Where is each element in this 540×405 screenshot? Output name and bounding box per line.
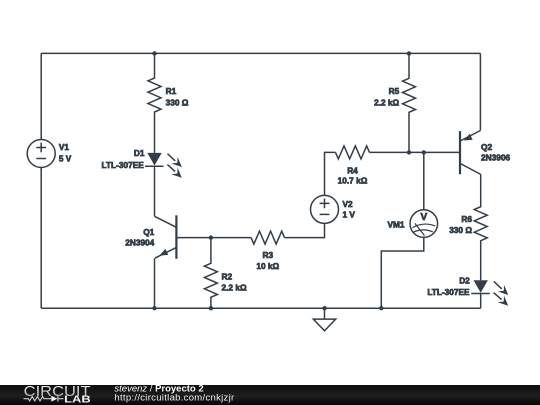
transistor Q1 — [155, 215, 177, 258]
node junction R2 top — [209, 235, 213, 239]
wire bottom rail — [41, 307, 481, 309]
resistor R5 — [403, 53, 416, 152]
svg-text:5 V: 5 V — [59, 154, 72, 164]
resistor R3 — [251, 231, 284, 244]
svg-text:R2: R2 — [222, 272, 233, 282]
label R5 value — [374, 86, 399, 107]
footer bar — [0, 385, 540, 405]
label Q2 value — [481, 142, 510, 163]
wire V1 top lead — [40, 53, 42, 139]
svg-text:R4: R4 — [347, 165, 358, 175]
wire VM1 top lead — [423, 152, 425, 209]
node junction R5 bottom — [407, 150, 411, 154]
node junction R2 bottom — [209, 306, 213, 310]
svg-text:LTL-307EE: LTL-307EE — [102, 160, 145, 170]
label D1 value — [102, 148, 145, 170]
node junction VM1 top — [422, 150, 426, 154]
label R3 value — [256, 250, 279, 271]
wire VM1 bottom lead to bottom rail — [381, 237, 424, 308]
resistor R1 — [148, 53, 161, 152]
node junction R1 top — [152, 51, 156, 55]
node junction Q1 emitter bottom — [152, 306, 156, 310]
wire Q1 base to R3 — [176, 237, 251, 239]
svg-text:10 kΩ: 10 kΩ — [256, 261, 279, 271]
svg-text:330 Ω: 330 Ω — [166, 97, 189, 107]
wire D1 to Q1 collector — [154, 166, 156, 216]
svg-text:2.2 kΩ: 2.2 kΩ — [222, 283, 247, 293]
svg-text:10.7 kΩ: 10.7 kΩ — [338, 176, 368, 186]
svg-text:2.2 kΩ: 2.2 kΩ — [374, 97, 399, 107]
svg-text:V1: V1 — [59, 142, 70, 152]
svg-text:D1: D1 — [134, 148, 145, 158]
voltage source V2 — [311, 195, 339, 223]
wire R3 to V2 — [285, 223, 325, 237]
label D2 value — [427, 276, 470, 298]
LED D1 — [145, 153, 182, 178]
voltmeter VM1 — [410, 210, 438, 238]
node junction VM1 return — [379, 306, 383, 310]
svg-text:D2: D2 — [459, 276, 470, 286]
ground — [313, 308, 335, 331]
svg-text:Q2: Q2 — [481, 142, 492, 152]
svg-text:R6: R6 — [461, 214, 472, 224]
wire V2 to R4 — [325, 152, 336, 195]
wire R4 to Q2 base — [370, 151, 461, 153]
resistor R2 — [204, 238, 217, 309]
label R1 value — [166, 86, 189, 107]
label V1 value — [59, 142, 72, 164]
node junction ground — [322, 306, 326, 310]
svg-text:V2: V2 — [343, 199, 354, 209]
svg-text:LTL-307EE: LTL-307EE — [427, 287, 470, 297]
label R4 value — [338, 165, 368, 185]
resistor R6 — [474, 174, 487, 280]
voltage source V1 — [27, 140, 55, 168]
svg-text:2N3904: 2N3904 — [125, 237, 154, 247]
resistor R4 — [336, 146, 370, 159]
transistor Q2 — [460, 131, 481, 175]
svg-text:R5: R5 — [389, 86, 400, 96]
svg-text:http://circuitlab.com/cnkjzjr: http://circuitlab.com/cnkjzjr — [114, 392, 234, 403]
svg-text:2N3906: 2N3906 — [481, 152, 510, 162]
svg-text:R3: R3 — [262, 250, 273, 260]
wire top rail — [41, 52, 480, 54]
label R2 value — [222, 272, 247, 293]
label V2 value — [343, 199, 356, 220]
svg-text:330 Ω: 330 Ω — [449, 225, 472, 235]
wire D2 to bottom rail — [480, 294, 482, 309]
svg-text:R1: R1 — [166, 86, 177, 96]
LED D2 — [471, 280, 508, 306]
node junction R5 top — [407, 51, 411, 55]
svg-text:V: V — [420, 212, 427, 223]
wire Q1 emitter to bottom rail — [154, 258, 156, 308]
wire Q2 emitter to top rail — [479, 53, 481, 130]
CircuitLab logo icon (resistor + diode) — [24, 396, 64, 402]
svg-text:LAB: LAB — [64, 393, 91, 405]
wire V1 bottom lead — [40, 168, 42, 309]
svg-text:1 V: 1 V — [343, 210, 356, 220]
svg-text:Q1: Q1 — [143, 227, 154, 237]
label Q1 value — [125, 227, 154, 247]
svg-text:VM1: VM1 — [387, 219, 404, 229]
label R6 value — [449, 214, 472, 235]
